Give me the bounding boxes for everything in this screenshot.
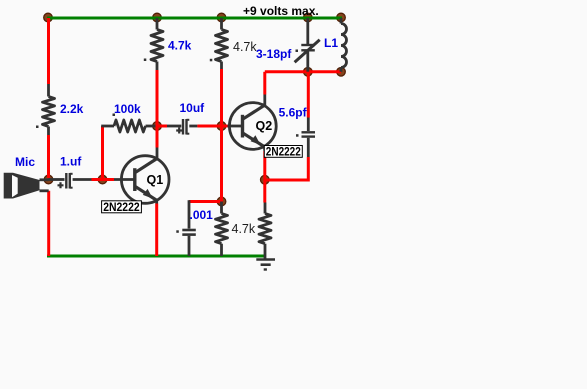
svg-text:5.6pf: 5.6pf [279, 106, 308, 120]
artifact dot 5.6pf [296, 134, 299, 137]
node: V+ / rail2 [153, 13, 162, 22]
wire: emitter node down to R6 [263, 180, 266, 203]
wire: cap C1 to Q1 base node [73, 178, 92, 181]
node: Q1 base / 100k [98, 175, 107, 184]
artifact dot R4 [210, 59, 213, 62]
resistor R4 4.7k zigzag [216, 30, 228, 62]
svg-text:L1: L1 [324, 36, 338, 50]
wire: node down to bottom node [220, 126, 223, 202]
artifact dot R3 [144, 59, 147, 62]
wire: red from R3 to node (157,126) [156, 70, 159, 126]
resistor R5 4.7k (bottom middle) [220, 202, 223, 214]
node: tank / L1 bottom [337, 68, 346, 77]
wire: top +9V green rail [47, 17, 342, 20]
capacitor C4 5.6pf branch [307, 72, 310, 118]
wire: left rail mid segment [47, 135, 50, 178]
svg-text:4.7k: 4.7k [232, 222, 256, 236]
wire: tank rail horizontal [265, 70, 341, 73]
wire: Q2 collector up [263, 95, 266, 106]
svg-text:+9 volts max.: +9 volts max. [243, 4, 319, 18]
wire: 5.6pf to emitter node [265, 157, 309, 180]
capacitor C2 10uf (polarized) [182, 119, 184, 135]
svg-text:10uf: 10uf [180, 101, 206, 115]
resistor R3 4.7k zigzag [151, 30, 163, 62]
resistor R6 4.7k zigzag [259, 214, 271, 244]
node: Q2 base / 10uf / 4.7k [217, 122, 226, 131]
svg-text:1.uf: 1.uf [60, 155, 82, 169]
capacitor C5 .001 [188, 200, 191, 228]
wire: Q1 emitter down [155, 200, 158, 204]
node: V+ / L1 [337, 13, 346, 22]
wire: bottom ground green rail [47, 255, 266, 258]
capacitor C1 1.uf (polarized) [65, 173, 67, 189]
svg-text:2N2222: 2N2222 [103, 202, 140, 214]
artifact dot varcap [296, 50, 299, 53]
node: V+ / rail3 [217, 13, 226, 22]
wire: left rail lower segment (mic gnd) [47, 191, 50, 256]
svg-text:4.7k: 4.7k [168, 39, 192, 53]
artifact dot .001 [176, 230, 179, 233]
svg-text:3-18pf: 3-18pf [256, 47, 292, 61]
wire: Q2 base [222, 125, 228, 128]
svg-text:100k: 100k [114, 102, 141, 116]
wire: bottom node to .001 [189, 200, 222, 203]
wire: base node to Q1 [103, 178, 115, 181]
svg-text:.001: .001 [190, 208, 214, 222]
svg-text:4.7k: 4.7k [233, 40, 257, 54]
wire: left rail top segment [47, 18, 50, 84]
artifact dot 2.2k [36, 126, 39, 129]
wire: vertical from base node up to 100k [101, 126, 104, 180]
wire: Q2 emitter down [263, 147, 266, 152]
node: .001 / 4.7k bottom [217, 197, 226, 206]
node: tank / varcap bottom [304, 68, 313, 77]
wire: node (157,126) down to Q1 collector [156, 126, 159, 148]
svg-text:2N2222: 2N2222 [266, 146, 301, 158]
node: mic / 2.2k / 1uf [44, 175, 53, 184]
transistor Q2 [229, 103, 276, 150]
wire: mic node to cap C1 [49, 178, 65, 181]
resistor R2 100k zigzag [114, 120, 146, 132]
node: V+ / left rail [44, 13, 53, 22]
resistor R1 2.2k zigzag [43, 97, 55, 127]
resistor R2 100k leads [101, 125, 114, 128]
svg-text:2.2k: 2.2k [60, 102, 84, 116]
svg-text:Q2: Q2 [256, 119, 273, 133]
wire: red to base node of Q2 [220, 69, 223, 126]
resistor R4 4.7k top lead [220, 18, 223, 30]
label 2N2222 Q2 [264, 146, 302, 159]
transistor Q1 [121, 156, 169, 204]
microphone Mic [4, 173, 40, 199]
label 2N2222 Q1 [102, 201, 142, 214]
svg-text:Mic: Mic [15, 155, 35, 169]
variable capacitor C3 3-18pf [306, 18, 309, 44]
ground symbol [264, 256, 267, 259]
node: Q1 collector / 100k / 10uf [153, 122, 162, 131]
node: Q2 emitter / 5.6pf / 4.7k [261, 175, 270, 184]
node: V+ / varcap [304, 13, 313, 22]
inductor L1 [340, 18, 343, 24]
resistor R3 4.7k top lead [156, 18, 159, 30]
resistor R1 2.2k leads [47, 84, 50, 97]
svg-text:Q1: Q1 [147, 173, 164, 187]
artifact dot 100k [113, 114, 116, 117]
wire: node(157,126) to 10uf [157, 125, 167, 128]
